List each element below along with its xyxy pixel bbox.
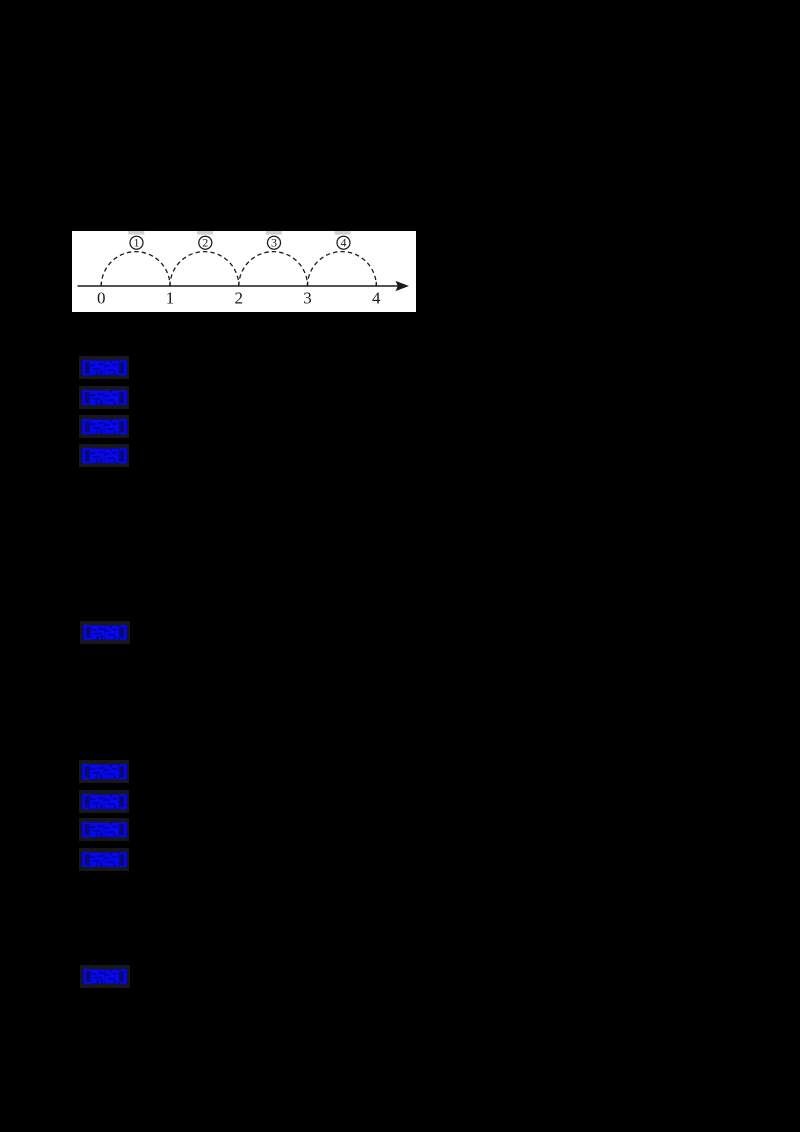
tick 2	[238, 282, 240, 286]
tick 4	[375, 282, 377, 286]
dashed arc 1	[101, 252, 170, 286]
gray tab above arc 1	[128, 231, 144, 235]
label group 2: zhuanti	[79, 790, 129, 813]
gray tab above arc 4	[335, 231, 351, 235]
svg-text:1: 1	[134, 236, 140, 250]
circled number 1	[130, 236, 143, 249]
circled number 3	[268, 236, 281, 249]
label group 2: fenxi	[79, 818, 129, 841]
svg-text:2: 2	[202, 236, 208, 250]
svg-text:4: 4	[372, 289, 381, 308]
label group 2: jieda	[79, 848, 129, 871]
tick 0	[100, 282, 102, 286]
label group 1: zhuanti	[79, 386, 129, 409]
svg-text:1: 1	[166, 289, 175, 308]
svg-text:3: 3	[303, 289, 312, 308]
number-line axis	[78, 285, 404, 287]
label group 1: jieda	[79, 444, 129, 467]
label group 1: fenxi	[79, 415, 129, 438]
tick 1	[169, 282, 171, 286]
label dianping 1	[80, 621, 130, 644]
dashed arc 2	[170, 252, 239, 286]
label dianping 2	[80, 965, 130, 988]
dashed arc 3	[239, 252, 308, 286]
svg-text:3: 3	[271, 236, 277, 250]
label group 2: kaodian	[79, 760, 129, 783]
svg-text:2: 2	[235, 289, 244, 308]
dashed arc 4	[308, 252, 377, 286]
circled number 2	[199, 236, 212, 249]
label group 1: kaodian	[79, 356, 129, 379]
figure: white number-line image box	[72, 231, 416, 312]
svg-text:4: 4	[341, 236, 347, 250]
axis arrowhead	[396, 281, 410, 291]
circled number 4	[337, 236, 350, 249]
tick 3	[307, 282, 309, 286]
gray tab above arc 3	[266, 231, 282, 235]
gray tab above arc 2	[197, 231, 213, 235]
svg-text:0: 0	[97, 289, 106, 308]
